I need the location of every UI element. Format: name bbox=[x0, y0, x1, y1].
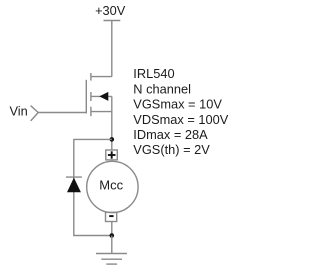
svg-text:Vin: Vin bbox=[10, 103, 28, 118]
junction node A bbox=[110, 137, 115, 142]
motor Mcc body bbox=[87, 161, 138, 212]
junction node B bbox=[110, 233, 115, 238]
power rail bar bbox=[104, 20, 121, 22]
svg-text:+30V: +30V bbox=[95, 3, 126, 18]
diode D1 cathode bar bbox=[66, 176, 82, 178]
wire ground stem bbox=[111, 236, 113, 254]
motor plus terminal box bbox=[106, 150, 118, 160]
wire Vin to gate bbox=[38, 112, 86, 114]
ground bar 2 bbox=[101, 258, 122, 260]
diode D1 triangle bbox=[67, 178, 81, 193]
wire +30V to drain bbox=[111, 21, 113, 77]
svg-text:IRL540: IRL540 bbox=[133, 66, 174, 81]
transistor Q1 IRL540 drain lead bbox=[91, 76, 112, 78]
transistor Q1 source lead bbox=[91, 111, 112, 113]
transistor Q1 body lead bbox=[91, 95, 112, 97]
transistor Q1 body channel dash bbox=[90, 92, 92, 101]
input port chevron Vin bbox=[31, 106, 39, 121]
svg-text:Mcc: Mcc bbox=[99, 177, 123, 192]
svg-text:VGS(th) = 2V: VGS(th) = 2V bbox=[133, 142, 210, 157]
wire source to motor bbox=[111, 96, 113, 150]
svg-text:N channel: N channel bbox=[133, 81, 191, 96]
motor plus sign bbox=[108, 151, 116, 158]
wire motor to ground bbox=[111, 222, 113, 236]
transistor Q1 spec labels bbox=[133, 66, 228, 157]
svg-text:IDmax = 28A: IDmax = 28A bbox=[133, 127, 208, 142]
wire diode branch bbox=[74, 139, 112, 235]
svg-text:VDSmax = 100V: VDSmax = 100V bbox=[133, 112, 228, 127]
svg-text:VGSmax = 10V: VGSmax = 10V bbox=[133, 97, 222, 112]
transistor Q1 gate plate bbox=[85, 80, 87, 114]
transistor Q1 drain channel dash bbox=[90, 73, 92, 81]
motor minus sign bbox=[109, 215, 113, 217]
motor minus terminal box bbox=[106, 212, 117, 221]
transistor Q1 body arrow bbox=[99, 92, 108, 101]
transistor Q1 source channel dash bbox=[90, 107, 92, 117]
ground bar 1 bbox=[96, 253, 127, 255]
ground bar 3 bbox=[106, 263, 117, 265]
